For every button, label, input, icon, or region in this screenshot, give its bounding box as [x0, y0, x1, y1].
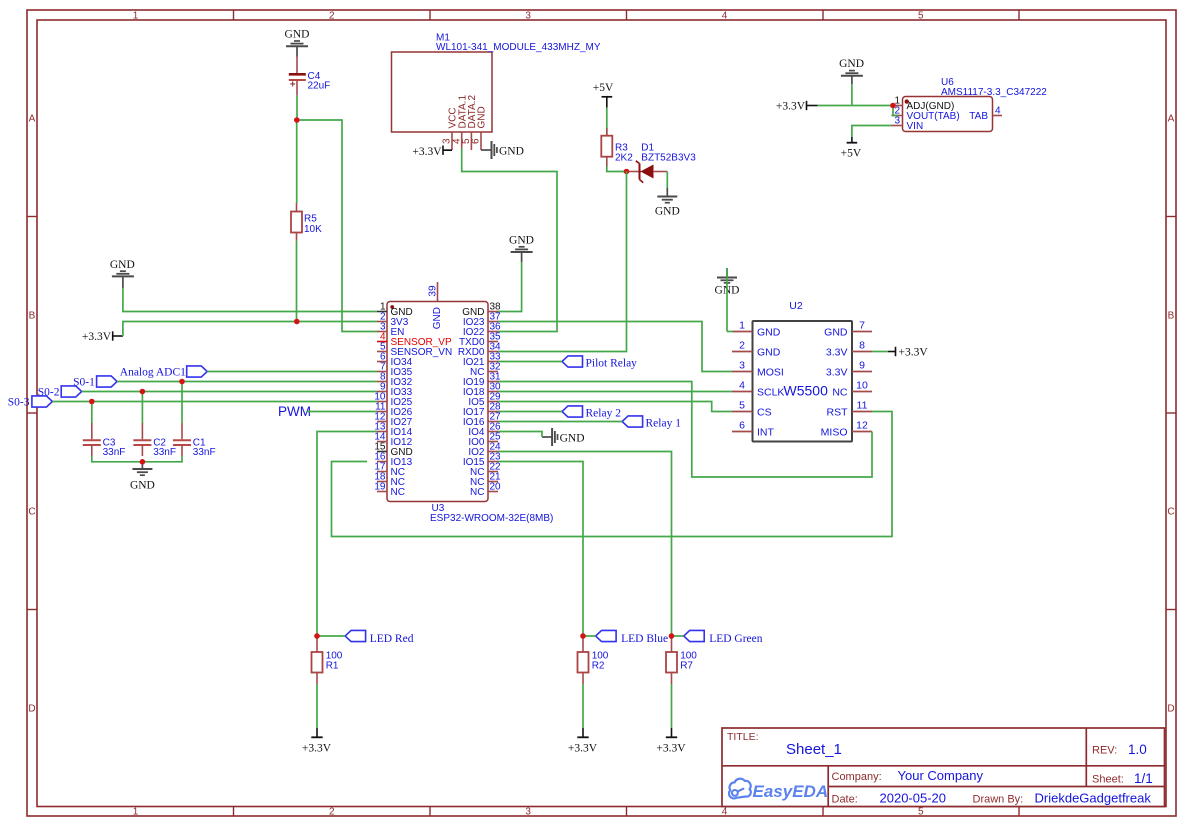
- svg-text:2: 2: [329, 10, 335, 21]
- svg-text:TAB: TAB: [969, 111, 988, 122]
- U3 pin 1 GND: [377, 301, 413, 318]
- svg-text:GND: GND: [655, 206, 680, 218]
- wire U3 IO17 to Relay 2: [498, 411, 562, 413]
- svg-text:NC: NC: [391, 487, 405, 498]
- svg-text:+3.3V: +3.3V: [82, 331, 112, 343]
- net port LED Red: [345, 630, 414, 645]
- wire S0-3 to U3 IO25: [52, 401, 377, 403]
- U3 pin 29 IO5: [468, 391, 501, 408]
- C2 labels: [153, 437, 176, 458]
- svg-text:33nF: 33nF: [193, 447, 216, 458]
- resistor R1: [312, 637, 323, 684]
- svg-text:R2: R2: [592, 661, 605, 672]
- power flag +3.3V (left of U3): [82, 331, 123, 343]
- wire U3 IO19 to U2 MISO: [498, 382, 872, 478]
- U2 pin 12 MISO: [821, 420, 872, 439]
- svg-text:1: 1: [133, 10, 139, 21]
- junction C4/EN branch: [294, 117, 300, 123]
- diode D1: [627, 161, 668, 183]
- svg-text:INT: INT: [757, 426, 775, 438]
- svg-text:B: B: [29, 310, 36, 321]
- net port S0-1: [73, 376, 117, 388]
- U2 reference label: [789, 300, 803, 312]
- svg-text:Relay 1: Relay 1: [646, 417, 682, 429]
- R2 labels: [592, 651, 609, 672]
- U3 pin 23 IO15: [463, 451, 501, 468]
- U3 pin 20 NC: [470, 481, 501, 498]
- wire C4 to R5: [296, 96, 298, 203]
- svg-text:LED Blue: LED Blue: [621, 633, 668, 645]
- wire U3 IO21 to Pilot Relay: [498, 361, 562, 363]
- net port Analog ADC1: [120, 366, 207, 378]
- wire C1 to S0-1 line: [181, 382, 183, 424]
- power flag +3.3V (below R2): [568, 684, 598, 755]
- svg-text:4: 4: [722, 807, 728, 818]
- title block Company: [832, 768, 984, 783]
- svg-text:3: 3: [894, 115, 900, 126]
- ground flag GND (U2 pin1 net): [715, 268, 740, 297]
- junction LED Red/R1: [314, 633, 320, 639]
- U3 pin 25 IO0: [468, 431, 501, 448]
- title block Date: [832, 791, 1152, 806]
- svg-text:Drawn By:: Drawn By:: [973, 794, 1024, 806]
- wire GND flag to U3 pin1: [123, 288, 377, 312]
- svg-text:+3.3V: +3.3V: [302, 743, 332, 755]
- U3 pin 16 IO13: [374, 451, 412, 468]
- ground flag GND (capacitor bank): [130, 462, 155, 492]
- svg-text:GND: GND: [757, 326, 781, 338]
- net port Relay 1: [622, 416, 681, 429]
- svg-text:2: 2: [739, 340, 745, 352]
- wire U2 pin8 to +3.3V: [872, 351, 896, 353]
- svg-text:1.0: 1.0: [1128, 742, 1147, 757]
- title block TITLE text: [727, 731, 842, 758]
- svg-text:Your Company: Your Company: [898, 768, 984, 783]
- svg-text:B: B: [1168, 310, 1175, 321]
- net port S0-2: [38, 386, 82, 398]
- wire C4 branch to U3 pin3 EN: [297, 120, 377, 332]
- resistor R7: [666, 637, 677, 684]
- svg-text:9: 9: [859, 360, 865, 372]
- U3 pin 10 IO25: [374, 391, 412, 408]
- svg-text:6: 6: [739, 420, 745, 432]
- U3 pin 15 GND: [374, 441, 412, 458]
- power flag +3.3V (below R1): [302, 684, 332, 755]
- junction cap bus GND: [140, 459, 146, 465]
- U2 pin 8 3.3V: [826, 340, 872, 359]
- U3 part name label: [430, 513, 553, 524]
- C4 labels: [308, 71, 331, 92]
- svg-text:39: 39: [428, 285, 439, 297]
- wire M1 VCC flag stub: [443, 149, 452, 151]
- U3 pin 19 NC: [374, 481, 405, 498]
- ground flag GND (left, pin1 net): [110, 259, 135, 288]
- svg-text:33nF: 33nF: [153, 447, 176, 458]
- U3 pin 6 IO34: [377, 351, 413, 368]
- svg-text:GND: GND: [757, 346, 781, 358]
- U2 pin 5 CS: [732, 400, 772, 419]
- M1 pin 3 VCC: [442, 107, 459, 150]
- capacitor C2: [133, 423, 151, 456]
- wire M1 DATA.1 to U3 pin36 IO22: [462, 148, 557, 332]
- ground flag GND (at U3 pin26 IO4): [542, 428, 585, 446]
- svg-text:Pilot Relay: Pilot Relay: [586, 357, 638, 369]
- svg-text:3: 3: [525, 807, 531, 818]
- wire C2 to S0-2 line: [141, 392, 143, 424]
- svg-text:10K: 10K: [304, 224, 322, 235]
- wire C3 to S0-3 line: [91, 402, 93, 424]
- M1 pin 4 DATA.1: [451, 95, 468, 150]
- svg-text:6: 6: [471, 138, 482, 144]
- svg-text:GND: GND: [499, 145, 524, 157]
- U3 pin 22 NC: [470, 461, 501, 478]
- svg-text:12: 12: [856, 420, 868, 432]
- svg-text:+3.3V: +3.3V: [899, 347, 929, 359]
- svg-text:EasyEDA: EasyEDA: [753, 782, 829, 801]
- wire U3 RXD0 to D1 junction: [498, 172, 627, 352]
- svg-text:S0-3: S0-3: [8, 396, 30, 408]
- U6 pin 3 VIN: [892, 115, 924, 132]
- U3 pin 5 SENSOR_VN: [377, 341, 452, 358]
- capacitor C3: [83, 423, 101, 456]
- net label PWM: [278, 404, 311, 419]
- IC U3 body: [387, 302, 488, 502]
- junction U6 ADJ/VOUT: [890, 103, 896, 109]
- wire capacitor ground bus: [92, 456, 182, 462]
- U3 pin 2 3V3: [377, 311, 409, 328]
- wire S0-1 to U3 IO32: [117, 381, 377, 383]
- junction S0-2/C2: [140, 389, 146, 395]
- junction R3/D1/RXD0: [624, 169, 630, 175]
- svg-text:MISO: MISO: [821, 426, 848, 438]
- svg-text:MOSI: MOSI: [757, 366, 784, 378]
- U2 part name W5500: [784, 383, 829, 399]
- wire U6 pin1 junction to pin2: [893, 106, 898, 116]
- U3 pin 18 NC: [374, 471, 405, 488]
- svg-text:D: D: [28, 703, 35, 714]
- wire PWM to U3 IO26: [306, 411, 377, 413]
- U3 pin 24 IO2: [468, 441, 501, 458]
- svg-text:GND: GND: [285, 29, 310, 41]
- U3 pin 32 NC: [470, 361, 501, 378]
- U3 pin 28 IO17: [463, 401, 501, 418]
- svg-text:20: 20: [490, 481, 502, 492]
- svg-text:3: 3: [739, 360, 745, 372]
- svg-text:Relay 2: Relay 2: [586, 407, 622, 419]
- capacitor C4: [289, 57, 306, 96]
- U3 pin 27 IO16: [463, 411, 501, 428]
- wire +5V to U6 VIN: [852, 126, 892, 138]
- svg-text:LED Green: LED Green: [709, 633, 763, 645]
- resistor R5: [291, 203, 302, 241]
- svg-text:DriekdeGadgetfreak: DriekdeGadgetfreak: [1035, 791, 1152, 806]
- U3 pin 17 NC: [374, 461, 405, 478]
- svg-text:GND: GND: [110, 259, 135, 271]
- net port LED Blue: [596, 630, 668, 645]
- junction LED Blue/R2: [580, 633, 586, 639]
- IC U2 body: [753, 321, 853, 442]
- U3 pin 36 IO22: [463, 321, 501, 338]
- U2 pin 1 GND: [732, 320, 781, 339]
- U6 pin-1 marker dot: [905, 99, 909, 103]
- M1 part name label: [436, 42, 601, 53]
- svg-text:4: 4: [722, 10, 728, 21]
- svg-text:5: 5: [918, 807, 924, 818]
- svg-text:RST: RST: [827, 406, 849, 418]
- svg-text:7: 7: [859, 320, 865, 332]
- svg-text:5: 5: [739, 400, 745, 412]
- svg-text:C: C: [28, 507, 35, 518]
- svg-text:TITLE:: TITLE:: [727, 731, 759, 743]
- svg-text:+: +: [290, 80, 296, 91]
- U3 pin 14 IO12: [374, 431, 412, 448]
- wire U3 IO18 to U2 SCLK: [498, 391, 732, 393]
- U3 pin 11 IO26: [375, 401, 413, 418]
- power flag +3.3V (at M1 VCC): [412, 146, 452, 158]
- svg-text:AMS1117-3.3_C347222: AMS1117-3.3_C347222: [941, 87, 1047, 98]
- svg-text:3.3V: 3.3V: [826, 346, 848, 358]
- svg-text:R7: R7: [680, 661, 693, 672]
- svg-text:R5: R5: [304, 214, 317, 225]
- svg-text:WL101-341_MODULE_433MHZ_MY: WL101-341_MODULE_433MHZ_MY: [436, 42, 601, 53]
- svg-text:GND: GND: [477, 106, 488, 128]
- M1 pin 5 DATA.2: [461, 95, 478, 150]
- power flag +3.3V (below R7): [656, 684, 686, 755]
- wire +3.3V rail to U3 pin2 3V3: [123, 322, 377, 337]
- resistor R3: [601, 108, 612, 167]
- U3 pin 8 IO32: [377, 371, 413, 388]
- U3 pin 35 TXD0: [459, 331, 501, 348]
- svg-text:1: 1: [739, 320, 745, 332]
- wire +3.3V/GND to U6 pin1: [818, 84, 893, 106]
- U3 pin 13 IO14: [374, 421, 412, 438]
- svg-text:1: 1: [133, 807, 139, 818]
- U3 pin-1 marker dot: [390, 305, 394, 309]
- U3 pin 38 GND: [462, 301, 501, 318]
- U3 pin 12 IO27: [374, 411, 412, 428]
- ground flag GND (above U6): [839, 58, 864, 84]
- title block frame: [722, 728, 1165, 807]
- U2 pin 11 RST: [827, 400, 873, 419]
- svg-text:VIN: VIN: [907, 121, 924, 132]
- R3 labels: [615, 143, 633, 164]
- svg-text:PWM: PWM: [278, 404, 311, 419]
- wire U3 IO14 to R1/LED Red: [317, 432, 377, 638]
- power flag +5V (below U6 VIN): [841, 137, 862, 160]
- wire U3 IO4 to GND flag: [498, 432, 542, 438]
- U3 pin 33 IO21: [463, 351, 501, 368]
- wire R3 to D1 junction: [607, 167, 627, 172]
- svg-text:ESP32-WROOM-32E(8MB): ESP32-WROOM-32E(8MB): [430, 513, 553, 524]
- svg-text:Analog ADC1: Analog ADC1: [120, 366, 186, 378]
- wire U3 IO16 to Relay 1: [498, 421, 622, 423]
- IC U6 body: [903, 97, 993, 132]
- svg-text:3: 3: [525, 10, 531, 21]
- net port Relay 2: [562, 406, 621, 419]
- svg-text:3.3V: 3.3V: [826, 366, 848, 378]
- U6 part name label: [941, 87, 1047, 98]
- svg-text:CS: CS: [757, 406, 772, 418]
- svg-text:LED Red: LED Red: [370, 633, 414, 645]
- svg-text:22uF: 22uF: [308, 81, 331, 92]
- ground flag GND (at M1 pin6): [481, 141, 524, 159]
- wire S0-2 to U3 IO33: [82, 391, 377, 393]
- ground flag GND (below D1): [655, 172, 680, 218]
- title block Sheet: [1092, 771, 1153, 786]
- svg-text:R1: R1: [326, 661, 339, 672]
- svg-text:2020-05-20: 2020-05-20: [880, 791, 947, 806]
- svg-text:A: A: [29, 114, 36, 125]
- U6 reference label: [941, 77, 954, 88]
- svg-text:SCLK: SCLK: [757, 386, 784, 398]
- svg-text:2K2: 2K2: [615, 152, 633, 163]
- U3 pin 39 GND (top): [428, 282, 443, 329]
- U2 pin 7 GND: [824, 320, 872, 339]
- wire U3 IO23 to U2 MOSI: [498, 322, 732, 372]
- U2 pin 6 INT: [732, 420, 775, 439]
- svg-text:+5V: +5V: [841, 148, 862, 160]
- wire U3 IO2 to R7/LED Green: [498, 452, 684, 638]
- U3 reference label: [432, 503, 445, 514]
- title block REV: [1092, 742, 1147, 757]
- C1 labels: [193, 437, 216, 458]
- svg-text:+5V: +5V: [593, 82, 614, 94]
- resistor R2: [578, 637, 589, 684]
- U3 pin 31 IO19: [463, 371, 501, 388]
- C3 labels: [103, 437, 126, 458]
- U2 pin 2 GND: [732, 340, 781, 359]
- U3 pin 34 RXD0: [458, 341, 501, 358]
- wire GND mid to U3 pin38: [498, 262, 522, 312]
- svg-text:+3.3V: +3.3V: [412, 146, 442, 158]
- svg-text:+3.3V: +3.3V: [568, 743, 598, 755]
- U6 pin 2 VOUT(TAB): [892, 105, 960, 122]
- U2 pin 3 MOSI: [732, 360, 784, 379]
- net port LED Green: [684, 630, 763, 645]
- power flag +3.3V (at U2 pin8): [896, 347, 929, 359]
- svg-text:GND: GND: [560, 432, 585, 444]
- ground flag GND (above U3 pin38): [509, 235, 534, 263]
- net port Pilot Relay: [562, 356, 637, 369]
- D1 labels: [641, 143, 696, 164]
- wire U3 IO5 to U2 CS: [498, 402, 732, 412]
- svg-text:4: 4: [995, 105, 1001, 116]
- wire R5 to 3V3 rail junction: [296, 241, 298, 322]
- svg-text:A: A: [1168, 114, 1175, 125]
- module M1 body: [392, 52, 493, 132]
- R7 labels: [680, 651, 697, 672]
- power flag +5V (above R3): [593, 82, 614, 108]
- svg-text:5: 5: [918, 10, 924, 21]
- junction S0-3/C3: [89, 399, 95, 405]
- wire U3 IO15 to R2/LED Blue: [498, 462, 596, 638]
- svg-text:NC: NC: [470, 487, 484, 498]
- U2 pin 10 NC: [832, 380, 872, 399]
- svg-text:Sheet:: Sheet:: [1092, 774, 1124, 786]
- svg-text:REV:: REV:: [1092, 745, 1117, 757]
- power flag +3.3V (left of U6): [776, 101, 818, 113]
- U3 pin 30 IO18: [463, 381, 501, 398]
- wire U3 IO13 to U2 RST: [332, 412, 893, 537]
- net port S0-3: [8, 396, 53, 408]
- ground flag GND (above C4): [285, 29, 310, 57]
- svg-text:19: 19: [374, 481, 386, 492]
- wire Analog ADC1 to U3 IO35: [207, 371, 377, 373]
- svg-text:Sheet_1: Sheet_1: [786, 741, 842, 758]
- R5 labels: [304, 214, 322, 236]
- svg-text:BZT52B3V3: BZT52B3V3: [641, 152, 696, 163]
- svg-text:D: D: [1167, 703, 1174, 714]
- EasyEDA logo: [729, 779, 828, 801]
- svg-text:+3.3V: +3.3V: [656, 743, 686, 755]
- M1 reference label: [436, 33, 450, 44]
- junction S0-1/C1: [179, 379, 185, 385]
- svg-text:1/1: 1/1: [1134, 771, 1153, 786]
- M1 pin 6 GND: [471, 106, 488, 150]
- U3 pin 9 IO33: [377, 381, 413, 398]
- svg-text:W5500: W5500: [784, 383, 829, 399]
- junction R5/3V3 rail: [294, 319, 300, 325]
- wire U2 pin1 to GND flag: [727, 268, 733, 332]
- U3 pin 4 SENSOR_VP: [377, 331, 452, 348]
- svg-text:GND: GND: [130, 480, 155, 492]
- U6 pin 4 TAB: [969, 105, 1002, 122]
- U3 pin 37 IO23: [463, 311, 501, 328]
- svg-text:GND: GND: [824, 326, 848, 338]
- svg-text:GND: GND: [509, 235, 534, 247]
- svg-text:+3.3V: +3.3V: [776, 101, 806, 113]
- U2 pin 9 3.3V: [826, 360, 872, 379]
- svg-text:2: 2: [329, 807, 335, 818]
- capacitor C1: [173, 423, 191, 456]
- svg-text:8: 8: [859, 340, 865, 352]
- svg-text:U2: U2: [789, 300, 803, 312]
- svg-text:10: 10: [856, 380, 868, 392]
- U3 pin 7 IO35: [377, 361, 413, 378]
- U3 pin 26 IO4: [468, 421, 501, 438]
- svg-text:GND: GND: [839, 58, 864, 70]
- svg-text:GND: GND: [432, 307, 443, 329]
- R1 labels: [326, 651, 343, 672]
- svg-text:Company:: Company:: [832, 771, 882, 783]
- svg-text:Date:: Date:: [832, 794, 858, 806]
- U3 pin 3 EN: [377, 321, 404, 338]
- svg-text:C: C: [1167, 507, 1174, 518]
- junction LED Green/R7: [669, 633, 675, 639]
- U6 pin 1 ADJ(GND): [892, 95, 955, 112]
- U3 pin 21 NC: [470, 471, 501, 488]
- U2 pin 4 SCLK: [732, 380, 784, 399]
- svg-text:NC: NC: [832, 386, 848, 398]
- svg-text:11: 11: [857, 400, 868, 412]
- svg-text:4: 4: [739, 380, 745, 392]
- svg-text:33nF: 33nF: [103, 447, 126, 458]
